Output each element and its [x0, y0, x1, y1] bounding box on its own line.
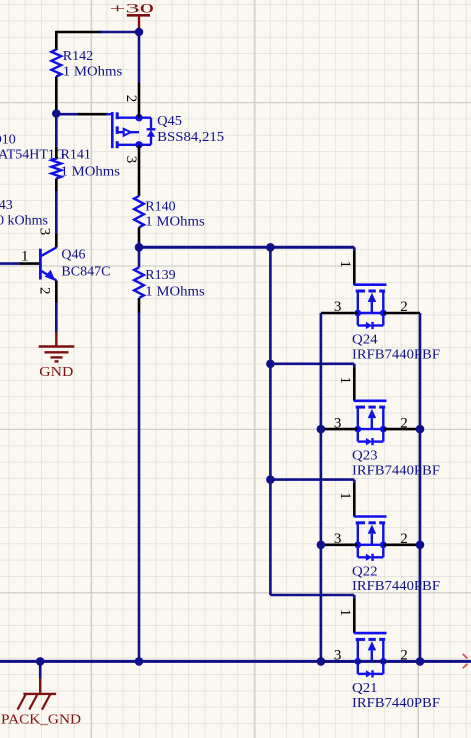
svg-text:D10: D10 [0, 132, 16, 147]
svg-text:Q45: Q45 [157, 114, 182, 129]
svg-text:R139: R139 [145, 268, 175, 283]
svg-text:1 MOhms: 1 MOhms [61, 165, 121, 180]
svg-text:IRFB7440PBF: IRFB7440PBF [352, 579, 440, 594]
svg-text:1: 1 [337, 260, 353, 268]
svg-text:2: 2 [400, 531, 408, 547]
svg-text:10 kOhms: 10 kOhms [0, 214, 48, 229]
svg-text:+30: +30 [110, 0, 155, 15]
svg-text:R141: R141 [61, 148, 91, 163]
svg-text:2: 2 [400, 299, 408, 315]
svg-text:Q22: Q22 [352, 564, 378, 579]
svg-text:1 MOhms: 1 MOhms [145, 284, 205, 299]
svg-text:1: 1 [337, 609, 353, 617]
svg-text:GND: GND [39, 365, 73, 380]
svg-text:PACK_GND: PACK_GND [1, 713, 81, 728]
svg-text:1 MOhms: 1 MOhms [145, 215, 205, 230]
svg-text:3: 3 [334, 415, 342, 431]
svg-text:1 MOhms: 1 MOhms [63, 64, 122, 79]
svg-text:Q46: Q46 [61, 248, 85, 263]
svg-text:R140: R140 [145, 199, 175, 214]
svg-text:1: 1 [21, 248, 29, 264]
svg-text:2: 2 [37, 287, 53, 295]
svg-text:IRFB7440PBF: IRFB7440PBF [352, 464, 440, 479]
svg-text:3: 3 [37, 228, 53, 236]
svg-text:BSS84,215: BSS84,215 [157, 130, 224, 145]
svg-text:Q23: Q23 [352, 449, 378, 464]
svg-text:3: 3 [123, 156, 139, 164]
svg-text:BC847C: BC847C [61, 265, 110, 280]
svg-text:IRFB7440PBF: IRFB7440PBF [352, 696, 440, 711]
svg-text:3: 3 [334, 531, 342, 547]
svg-text:2: 2 [123, 95, 139, 103]
svg-text:1: 1 [337, 376, 353, 384]
svg-text:1: 1 [337, 492, 353, 500]
svg-text:Q24: Q24 [352, 333, 378, 348]
svg-text:R143: R143 [0, 198, 13, 213]
svg-text:IRFB7440PBF: IRFB7440PBF [352, 347, 440, 362]
svg-text:R142: R142 [63, 49, 93, 64]
svg-text:2: 2 [400, 415, 408, 431]
svg-text:3: 3 [334, 299, 342, 315]
svg-text:Q21: Q21 [352, 681, 378, 696]
